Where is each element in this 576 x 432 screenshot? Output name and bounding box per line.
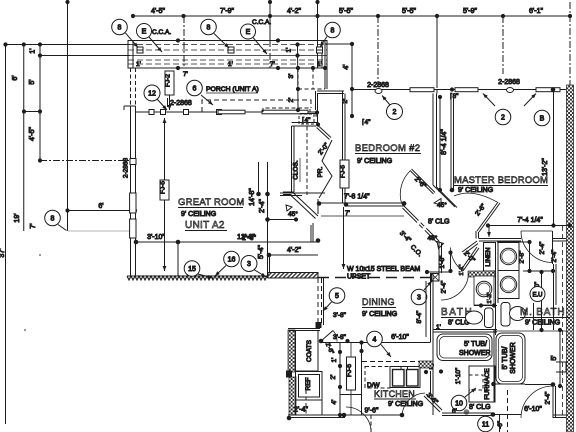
svg-text:8' CLG: 8' CLG — [469, 404, 491, 411]
washer box — [498, 243, 519, 271]
svg-text:UNIT A2: UNIT A2 — [185, 220, 225, 231]
svg-text:FURNACE: FURNACE — [484, 368, 491, 400]
svg-text:2'-4": 2'-4" — [539, 241, 546, 255]
closet walls: diagonal from entry — [318, 126, 331, 138]
svg-text:7': 7' — [30, 223, 37, 228]
gray door knob dot — [464, 409, 470, 415]
svg-text:3': 3' — [288, 74, 295, 79]
dot entry corner — [316, 122, 320, 126]
bifold doors zigzag — [319, 140, 332, 198]
jamb jog — [475, 231, 477, 239]
unit A porch dashed outline — [202, 100, 311, 112]
bottom wall mid — [345, 414, 402, 416]
svg-text:5': 5' — [551, 355, 558, 360]
svg-text:2'-0": 2'-0" — [317, 141, 331, 156]
svg-text:E: E — [142, 29, 147, 36]
door swing arrows — [483, 94, 495, 107]
band dashed lines — [128, 44, 327, 46]
svg-text:1': 1' — [331, 358, 338, 363]
svg-text:6'-10": 6'-10" — [524, 406, 542, 413]
svg-text:14'-8": 14'-8" — [249, 188, 256, 206]
faucet — [400, 367, 402, 370]
svg-text:9'-6": 9'-6" — [365, 408, 379, 415]
beam tie line — [427, 271, 451, 273]
svg-text:PR.: PR. — [317, 166, 324, 177]
bottom right door arc — [521, 386, 553, 418]
closet south jog — [283, 191, 294, 193]
callout 2 bed2 — [387, 104, 403, 120]
post marker 3 — [317, 47, 323, 53]
joist arrow FJ-5 great room — [164, 118, 166, 180]
wall corner tick top — [124, 105, 136, 107]
centerline x=503 — [502, 16, 504, 74]
callout E.U — [530, 287, 545, 302]
joist tag FJ-5 — [160, 180, 169, 200]
corridor lower wall — [268, 219, 297, 221]
svg-text:8: 8 — [331, 28, 335, 35]
mbath bottom wall — [494, 383, 525, 385]
post marker 1 — [137, 47, 143, 53]
dot hinge — [402, 201, 407, 206]
callout 5 — [329, 288, 345, 304]
hall — [318, 89, 572, 335]
svg-text:5: 5 — [335, 293, 339, 300]
svg-text:45°: 45° — [428, 234, 438, 242]
mbath wall right of tub — [493, 330, 495, 402]
upper cabinets dashed — [362, 361, 421, 363]
svg-text:5'-5": 5'-5" — [339, 8, 353, 15]
dot — [345, 339, 349, 343]
bedroom 2 and closets — [268, 41, 438, 242]
steel beam dashed line — [318, 277, 430, 279]
svg-text:6: 6 — [193, 86, 197, 93]
washer dryer nook wall — [495, 242, 497, 335]
joist arrow bed2 to beam — [343, 207, 345, 269]
entry storage dashed box below porch band — [297, 68, 299, 89]
svg-text:M. BATH: M. BATH — [520, 307, 565, 318]
extension x=5.5 — [5, 45, 7, 425]
bed2 NE corner — [436, 90, 438, 94]
svg-text:2'-6": 2'-6" — [324, 342, 334, 355]
svg-text:9' CEILING: 9' CEILING — [357, 158, 392, 165]
hall bottom wall — [442, 412, 493, 414]
dim 13'-2" master east — [553, 89, 555, 226]
svg-text:45°: 45° — [437, 201, 447, 209]
bed2 south wall — [318, 202, 404, 204]
dim line left horizontal — [6, 44, 131, 46]
svg-text:DINING: DINING — [362, 297, 395, 307]
corridor walls — [280, 192, 325, 194]
svg-text:2-2868: 2-2868 — [123, 158, 130, 179]
kitchen exit door arc — [346, 407, 371, 432]
svg-text:1': 1' — [228, 61, 233, 68]
great room — [124, 68, 320, 280]
svg-text:1': 1' — [436, 324, 441, 331]
svg-text:MASTER BEDROOM: MASTER BEDROOM — [454, 175, 548, 186]
bed2 window block — [410, 88, 434, 92]
svg-text:16: 16 — [228, 257, 236, 264]
porch front wall y=112 — [136, 111, 316, 113]
coats closet — [296, 331, 319, 372]
svg-text:C.O.: C.O. — [409, 244, 424, 259]
svg-text:SHOWER: SHOWER — [510, 342, 517, 374]
dim line y=255 — [269, 254, 318, 256]
svg-text:KITCHEN: KITCHEN — [374, 389, 415, 399]
callout B — [534, 110, 550, 126]
svg-text:1': 1' — [286, 48, 293, 53]
svg-text:8: 8 — [207, 25, 211, 32]
extension line x=317.5 — [317, 2, 319, 68]
counter edge line — [340, 394, 362, 396]
kitchen west wall — [361, 343, 363, 416]
svg-text:9' CEILING: 9' CEILING — [458, 187, 493, 194]
kitchen joist line — [350, 343, 352, 358]
callout 8 — [112, 19, 128, 35]
svg-text:1'-8": 1'-8" — [439, 255, 446, 269]
window sill segments on front wall — [218, 110, 245, 114]
linen door arc — [451, 248, 464, 272]
party wall hatched — [567, 85, 574, 432]
centerline x=378 — [377, 16, 379, 82]
dim line top — [133, 15, 570, 17]
svg-text:9' CEILING: 9' CEILING — [362, 311, 397, 318]
svg-text:6': 6' — [98, 203, 103, 210]
svg-text:2: 2 — [501, 115, 505, 122]
kitchen and coats/ref — [287, 329, 444, 418]
callout 3 dining — [411, 289, 427, 305]
band right double wall — [321, 41, 323, 69]
left dimension strings — [0, 42, 137, 424]
callout 4 — [367, 331, 383, 347]
sink basins — [393, 370, 405, 387]
svg-text:5' TUB/: 5' TUB/ — [502, 346, 509, 369]
svg-text:7'-9": 7'-9" — [220, 8, 234, 15]
tub mbath vertical — [496, 333, 525, 384]
bottom wall right — [553, 414, 566, 416]
callout 12 — [144, 85, 160, 101]
svg-text:COATS: COATS — [306, 339, 313, 362]
closet north wall — [292, 122, 319, 124]
dashed wall continuation from band — [130, 68, 132, 106]
top dimension string — [65, 0, 572, 211]
hatch wall under tub — [419, 361, 433, 368]
svg-text:11: 11 — [482, 422, 489, 429]
dash-dot door swing line y=161 — [40, 160, 130, 162]
svg-text:2-2868: 2-2868 — [367, 82, 389, 89]
svg-text:2'-4": 2'-4" — [259, 199, 266, 213]
svg-text:2'-6": 2'-6" — [474, 202, 488, 217]
coats top wall — [288, 328, 320, 330]
callout 11 — [478, 416, 494, 432]
45 marker — [434, 199, 441, 206]
dryer box — [498, 271, 519, 299]
linen door leaf — [463, 248, 479, 271]
svg-text:9' CEILING: 9' CEILING — [181, 211, 216, 218]
east wall double — [267, 255, 269, 278]
svg-text:⌈4": ⌈4" — [362, 118, 371, 126]
svg-text:W 10x15 STEEL BEAM: W 10x15 STEEL BEAM — [347, 266, 420, 273]
svg-text:7': 7' — [183, 71, 188, 78]
bed2 door arc — [400, 171, 410, 203]
svg-text:3'-10": 3'-10" — [147, 234, 165, 241]
wd top wall — [497, 241, 530, 243]
svg-text:B: B — [540, 116, 545, 123]
lower cabinet box — [296, 400, 323, 415]
mbath sink cabinet — [501, 303, 510, 327]
svg-text:45°: 45° — [288, 210, 298, 218]
svg-text:1': 1' — [30, 48, 37, 53]
dashed door line — [507, 390, 509, 432]
svg-text:3'-4": 3'-4" — [398, 230, 413, 245]
dim dots top — [65, 0, 572, 18]
svg-text:8'-4 1/4": 8'-4 1/4" — [441, 129, 448, 155]
dashed line inside party wall — [562, 226, 564, 415]
dining west wall dashed slider — [317, 278, 319, 325]
wall corner dot bottom — [134, 240, 139, 245]
dining — [268, 273, 433, 344]
wall notch right — [556, 362, 566, 372]
extension x=23.75 — [23, 45, 25, 232]
svg-text:3: 3 — [247, 261, 251, 268]
svg-text:3: 3 — [417, 295, 421, 302]
bottom walls and doors — [24, 254, 566, 432]
svg-text:5' TUB/: 5' TUB/ — [464, 341, 487, 348]
callout 2 master — [495, 109, 511, 125]
entry west wall — [315, 91, 317, 110]
svg-text:13'-2": 13'-2" — [542, 158, 549, 176]
svg-text:E: E — [246, 29, 251, 36]
svg-text:7': 7' — [270, 61, 275, 68]
svg-text:BEDROOM #2: BEDROOM #2 — [355, 143, 420, 154]
dim 7'-10" — [541, 272, 543, 330]
hatched exterior wall segment — [268, 273, 318, 279]
svg-text:4'-2": 4'-2" — [287, 247, 301, 254]
svg-text:3'-8": 3'-8" — [333, 334, 347, 341]
callout 6 porch — [187, 80, 203, 96]
tub bath — [437, 334, 492, 361]
svg-text:2': 2' — [330, 375, 337, 380]
post marker 2 — [228, 47, 234, 53]
door arc at angled wall — [402, 393, 425, 415]
angled wall SE of bed2 — [433, 185, 455, 207]
bath top wall y=328 — [433, 329, 497, 331]
joist tag FJ-2 — [165, 71, 174, 95]
bed2 door leaf — [410, 171, 434, 195]
svg-text:2'-4": 2'-4" — [545, 391, 552, 405]
svg-text:3'-8": 3'-8" — [333, 312, 347, 319]
svg-text:C.C.A.: C.C.A. — [252, 19, 271, 26]
svg-text:6': 6' — [12, 75, 19, 80]
wall between baths lower — [533, 303, 535, 330]
dim dots entry — [295, 42, 354, 118]
centerline x=570 right edge — [569, 2, 571, 95]
svg-text:7'-8 1/4": 7'-8 1/4" — [344, 194, 370, 201]
svg-text:LINEN: LINEN — [485, 247, 492, 266]
angled wall 45 closet — [293, 193, 318, 217]
dim x=298 — [297, 45, 300, 111]
corner angled wall kitchen — [426, 394, 442, 410]
bath door arc — [441, 273, 469, 301]
svg-text:5'-4": 5'-4" — [258, 245, 265, 259]
mbath north wall line — [494, 330, 566, 332]
right wall lines — [553, 264, 555, 330]
beam post hatched — [432, 274, 440, 282]
svg-text:5'-9": 5'-9" — [463, 8, 477, 15]
dim x=352 4' — [351, 44, 353, 116]
dim x=340 — [339, 343, 341, 416]
svg-text:2-2868: 2-2868 — [498, 79, 520, 86]
svg-text:12: 12 — [148, 91, 156, 98]
hall east wall vertical — [438, 241, 440, 273]
svg-text:6': 6' — [452, 408, 457, 415]
linen angled wall — [462, 241, 477, 252]
bed2 closet north wall — [317, 90, 344, 92]
svg-text:GREAT ROOM: GREAT ROOM — [178, 197, 245, 208]
svg-text:19': 19' — [14, 213, 21, 222]
east dim lines — [258, 162, 260, 194]
band right wall to entry — [324, 41, 326, 89]
svg-text:D/W: D/W — [367, 382, 381, 389]
wall segment right of 11 — [493, 414, 521, 416]
dim line 7'-4 1/4 — [488, 225, 570, 227]
svg-text:7'-4 1/4": 7'-4 1/4" — [517, 217, 543, 224]
dim 1'-8" — [450, 253, 452, 272]
svg-text:8: 8 — [51, 216, 55, 223]
furnace closet — [469, 366, 495, 402]
svg-text:4'-2": 4'-2" — [287, 8, 301, 15]
porch wall posts — [149, 110, 154, 115]
svg-text:5'-5": 5'-5" — [402, 8, 416, 15]
svg-text:2'-6": 2'-6" — [413, 176, 428, 191]
dim 5' right — [559, 330, 561, 386]
svg-text:1'-2": 1'-2" — [487, 292, 493, 303]
dim 8'-4 1/4 — [439, 97, 441, 190]
bath toilet — [466, 311, 483, 324]
svg-text:SHOWER: SHOWER — [459, 350, 491, 357]
sawtooth break line — [127, 276, 267, 280]
svg-text:8' CLG: 8' CLG — [428, 219, 450, 226]
svg-text:1': 1' — [317, 61, 322, 68]
porch beam band — [112, 19, 341, 127]
bed2 north wall line — [352, 89, 437, 91]
dining east wall line — [425, 281, 427, 337]
callout E mid — [241, 24, 256, 39]
bed2 west wall — [342, 91, 344, 203]
bath vanity — [474, 276, 494, 305]
svg-text:9' CEILING: 9' CEILING — [525, 320, 560, 327]
svg-text:1': 1' — [136, 61, 141, 68]
svg-text:2'-6": 2'-6" — [242, 235, 256, 242]
dim line y=272 right — [523, 270, 553, 272]
dashed ref line — [305, 377, 307, 415]
callout E — [137, 24, 152, 39]
svg-text:7': 7' — [345, 210, 350, 217]
svg-text:15: 15 — [188, 266, 196, 273]
small dots details — [39, 254, 41, 256]
svg-text:4': 4' — [331, 400, 338, 405]
callout 10 — [451, 395, 467, 411]
band left double wall — [132, 41, 134, 69]
closet dashed bifold line — [306, 120, 308, 195]
slider end square — [316, 323, 321, 328]
1' dim right — [424, 361, 443, 374]
svg-text:5': 5' — [29, 79, 36, 84]
extension line x=67.5 — [67, 2, 69, 211]
svg-text:C.C.A.: C.C.A. — [152, 29, 171, 36]
mbath toilet — [510, 307, 526, 321]
kitchen north wall — [321, 342, 431, 344]
exterior checkered wall left — [288, 330, 295, 372]
svg-text:8: 8 — [118, 25, 122, 32]
REF box — [296, 372, 323, 401]
wall corner dot — [551, 87, 556, 92]
west wall double — [130, 106, 132, 276]
master door leaf — [477, 202, 498, 231]
svg-text:6'-1": 6'-1" — [529, 8, 543, 15]
4" closet dashed box — [299, 114, 314, 124]
svg-text:FJ-5: FJ-5 — [346, 364, 353, 377]
joist tag FJ-5 kitchen — [347, 357, 356, 390]
svg-text:2': 2' — [288, 98, 295, 103]
svg-text:FJ-5: FJ-5 — [160, 181, 167, 194]
wall under vanity — [474, 305, 497, 307]
svg-text:PORCH (UNIT A): PORCH (UNIT A) — [206, 86, 259, 93]
svg-text:2: 2 — [393, 109, 397, 116]
dim line y=242 — [135, 241, 318, 243]
extension line x=270 — [269, 2, 271, 40]
master north wall — [437, 89, 566, 91]
centerline x=270 porch — [269, 40, 271, 68]
dim 2'-8" — [529, 242, 531, 271]
callout 8 mid — [201, 19, 217, 35]
svg-text:2'-4": 2'-4" — [551, 249, 558, 263]
extension line x=437 — [436, 16, 438, 88]
bed2 east wall — [432, 94, 434, 186]
dim dots — [176, 238, 321, 244]
svg-text:FJ-2: FJ-2 — [165, 74, 172, 87]
svg-text:2'-4": 2'-4" — [441, 280, 448, 294]
master bedroom — [433, 79, 574, 432]
svg-text:4'-5": 4'-5" — [29, 127, 36, 141]
dim line y=111.5 — [22, 111, 42, 113]
svg-text:10: 10 — [455, 401, 463, 408]
svg-text:2-2868: 2-2868 — [170, 100, 192, 107]
svg-text:-6": -6" — [497, 420, 504, 429]
window blocks — [455, 88, 478, 92]
entry step walls — [300, 113, 316, 115]
svg-text:FJ-5: FJ-5 — [340, 165, 347, 178]
master door arc — [454, 193, 497, 202]
dw counter dashed — [365, 367, 390, 389]
band inner solid line — [128, 55, 327, 57]
dim line y=55.5 — [40, 55, 130, 57]
svg-text:4'-5": 4'-5" — [151, 8, 165, 15]
light step line — [67, 211, 69, 232]
callout 15 — [184, 261, 200, 277]
hatched plumbing wall — [468, 271, 495, 277]
band bottom dots — [176, 38, 327, 70]
angled hall wall with cased opening — [404, 206, 415, 217]
closet west wall — [291, 126, 293, 192]
coats door — [319, 339, 324, 344]
extension x=40 — [39, 45, 41, 161]
callout 16 — [224, 251, 240, 267]
extension x=178 — [177, 242, 179, 276]
svg-text:1'-10": 1'-10" — [455, 367, 462, 384]
bathrooms — [419, 273, 570, 416]
dim line 6' y=210.5 — [68, 210, 136, 212]
callout 8 left — [45, 210, 61, 226]
